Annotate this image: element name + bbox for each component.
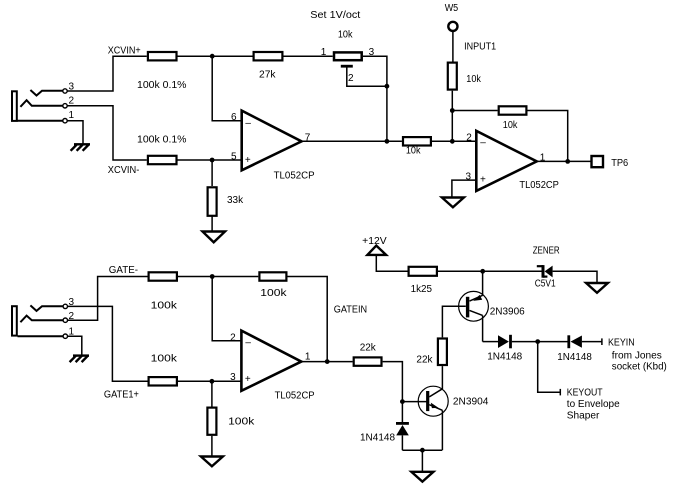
svg-text:10k: 10k bbox=[503, 120, 519, 131]
wire op-amp3 output bbox=[301, 361, 352, 363]
svg-text:TL052CP: TL052CP bbox=[275, 391, 315, 402]
wire op-amp2 output to TP6 bbox=[537, 160, 592, 162]
svg-text:INPUT1: INPUT1 bbox=[464, 42, 496, 53]
wire op-amp2 pin 3 to ground bbox=[452, 180, 476, 197]
svg-text:–: – bbox=[245, 118, 251, 129]
svg-text:2: 2 bbox=[230, 332, 236, 343]
connector W5 bbox=[445, 3, 459, 31]
chassis ground (bottom jack) bbox=[70, 356, 89, 363]
wire Q1 collector down to KEYIN line bbox=[482, 315, 484, 341]
zener diode C5V1 bbox=[533, 246, 560, 290]
svg-text:W5: W5 bbox=[445, 3, 459, 14]
transistor Q1 2N3906 bbox=[459, 271, 526, 321]
jack J2 body bbox=[12, 306, 17, 335]
wire to op-amp2 pin 2 bbox=[432, 140, 476, 142]
wire D1 to D2 bbox=[512, 341, 569, 343]
wire to op-amp pin 5 bbox=[178, 159, 242, 161]
svg-text:100k 0.1%: 100k 0.1% bbox=[137, 134, 187, 145]
transistor Q2 2N3904 bbox=[418, 386, 489, 450]
ground (op-amp2 pin3) bbox=[442, 198, 464, 208]
wire Q2 base node bbox=[402, 401, 426, 403]
wire 1k25 to zener bbox=[438, 270, 542, 272]
wire op-amp1 output bbox=[302, 140, 402, 142]
wire jack pin2 down to XCVIN- bbox=[67, 106, 147, 160]
svg-text:100k 0.1%: 100k 0.1% bbox=[137, 80, 187, 91]
svg-text:XCVIN+: XCVIN+ bbox=[108, 46, 141, 57]
label KEYOUT bbox=[567, 388, 620, 422]
wire 22k to Q2 collector bbox=[441, 366, 443, 389]
svg-text:27k: 27k bbox=[259, 70, 277, 81]
wire node P down to 100k bbox=[211, 381, 213, 406]
node A junction dot bbox=[210, 54, 215, 59]
svg-text:Shaper: Shaper bbox=[567, 411, 600, 422]
wire node K down to KEYOUT bbox=[538, 342, 561, 396]
svg-text:6: 6 bbox=[231, 112, 237, 123]
wire W5 to 10k bbox=[452, 31, 454, 62]
ground (below 100k) bbox=[201, 457, 223, 467]
svg-text:KEYOUT: KEYOUT bbox=[567, 388, 603, 399]
svg-text:22k: 22k bbox=[416, 354, 433, 365]
node C junction dot bbox=[210, 158, 215, 163]
svg-text:GATE1+: GATE1+ bbox=[104, 389, 139, 400]
wire node M to ground bbox=[421, 450, 423, 472]
jack J2 pin 2 contact bbox=[20, 311, 74, 323]
svg-text:XCVIN-: XCVIN- bbox=[108, 165, 140, 176]
svg-text:3: 3 bbox=[466, 172, 472, 183]
wire to feedback resistor bbox=[178, 276, 258, 278]
wire 10k down to pin 2 node bbox=[451, 91, 453, 142]
svg-text:2: 2 bbox=[348, 73, 354, 84]
wire jack pin1 to chassis ground bbox=[67, 121, 83, 144]
wire feedback down to output bbox=[288, 277, 328, 362]
wire pot pin3 down bbox=[363, 56, 387, 141]
wire feedback to output bbox=[528, 111, 568, 162]
jack J1 pin 2 contact bbox=[20, 96, 74, 109]
jack J2 pin 1 contact bbox=[18, 326, 75, 338]
svg-text:KEYIN: KEYIN bbox=[608, 337, 635, 348]
wire node N down to op-amp pin 2 bbox=[212, 277, 241, 341]
jack J2 pin 3 contact bbox=[30, 297, 74, 311]
wire node A down to op-amp pin 6 bbox=[212, 56, 242, 121]
wire jack J2 pin3 down to GATE1+ bbox=[68, 306, 148, 381]
resistor 10k (feedback) bbox=[499, 106, 527, 131]
svg-text:1N4148: 1N4148 bbox=[360, 433, 395, 444]
svg-text:1: 1 bbox=[321, 47, 327, 58]
chassis ground (top jack) bbox=[71, 144, 90, 151]
svg-text:100k: 100k bbox=[228, 417, 255, 428]
wire zener to ground bbox=[553, 271, 597, 283]
jack J1 pin 3 contact bbox=[30, 82, 74, 96]
wire +12V to 1k25 bbox=[376, 255, 407, 271]
wire 27k to pot pin1 bbox=[284, 55, 333, 57]
svg-text:100k: 100k bbox=[151, 301, 178, 312]
node P junction dot bbox=[210, 379, 215, 384]
svg-text:2: 2 bbox=[466, 132, 472, 143]
node H junction dot bbox=[480, 269, 485, 274]
ground (below 33k) bbox=[203, 232, 226, 243]
svg-text:1: 1 bbox=[69, 110, 75, 121]
wire emitter rail bbox=[402, 449, 442, 451]
resistor 100k (GATE1+) bbox=[104, 353, 178, 400]
node N junction dot bbox=[210, 274, 215, 279]
node B junction dot bbox=[385, 84, 390, 89]
svg-text:C5V1: C5V1 bbox=[535, 279, 556, 290]
svg-text:100k: 100k bbox=[260, 288, 287, 299]
node E junction dot bbox=[450, 108, 455, 113]
wire D2 to KEYIN terminal bbox=[582, 338, 602, 345]
wire to op-amp pin 3 bbox=[178, 380, 241, 382]
wire 22k to Q2 base node bbox=[383, 362, 403, 402]
svg-text:10k: 10k bbox=[338, 29, 354, 40]
svg-text:TL052CP: TL052CP bbox=[519, 180, 559, 191]
svg-text:+12V: +12V bbox=[362, 236, 387, 247]
resistor 10k (INPUT1) bbox=[448, 63, 482, 90]
resistor 10k (between op-amps) bbox=[403, 137, 431, 156]
svg-text:Set 1V/oct: Set 1V/oct bbox=[310, 10, 360, 21]
node Q junction dot bbox=[325, 359, 330, 364]
diode D1 1N4148 bbox=[487, 335, 522, 363]
jack J1 pin 1 contact bbox=[18, 110, 75, 123]
diode D2 1N4148 bbox=[557, 335, 592, 363]
svg-text:+: + bbox=[245, 374, 251, 385]
svg-text:+: + bbox=[480, 174, 486, 185]
resistor 100k (to ground) bbox=[207, 408, 255, 435]
resistor 100k (GATE-) bbox=[149, 272, 179, 311]
svg-text:GATE-: GATE- bbox=[109, 265, 138, 276]
svg-text:–: – bbox=[480, 138, 486, 149]
test point TP6 bbox=[592, 156, 629, 169]
wire Q1 base left and down bbox=[442, 306, 465, 337]
diode D3 1N4148 (vertical) bbox=[360, 402, 409, 451]
svg-text:10k: 10k bbox=[466, 74, 482, 85]
svg-text:3: 3 bbox=[230, 372, 236, 383]
op-amp U1A TL052CP bbox=[231, 111, 315, 182]
svg-text:TP6: TP6 bbox=[611, 158, 628, 169]
svg-text:–: – bbox=[245, 338, 251, 349]
svg-text:10k: 10k bbox=[406, 146, 422, 157]
node G junction dot bbox=[565, 159, 570, 164]
wire node E to feedback 10k bbox=[452, 110, 497, 112]
wire 100k to ground bbox=[211, 436, 213, 457]
resistor 22k (vertical) bbox=[416, 339, 447, 366]
resistor 100k 0.1% (XCVIN+) bbox=[137, 52, 187, 91]
svg-text:socket (Kbd): socket (Kbd) bbox=[612, 361, 667, 372]
wire jack J2 pin2 up to GATE- bbox=[68, 277, 148, 321]
wire pot wiper to node B bbox=[347, 66, 387, 86]
op-amp U1B TL052CP bbox=[466, 131, 560, 191]
svg-text:1N4148: 1N4148 bbox=[487, 352, 522, 363]
power +12V bbox=[362, 236, 387, 255]
svg-text:to Envelope: to Envelope bbox=[567, 399, 620, 410]
wire jack pin3 up to XCVIN+ bbox=[67, 56, 147, 91]
wire 33k to ground bbox=[211, 215, 213, 231]
wire KEYIN line left segment bbox=[483, 341, 498, 343]
potentiometer 10k bbox=[321, 29, 375, 84]
svg-text:+: + bbox=[245, 155, 251, 166]
resistor 22k (horizontal) bbox=[354, 343, 382, 366]
resistor 33k bbox=[208, 187, 245, 216]
svg-text:ZENER: ZENER bbox=[533, 246, 560, 257]
svg-text:2N3904: 2N3904 bbox=[453, 396, 489, 407]
ground (Q2 emitter) bbox=[411, 472, 433, 482]
resistor 100k 0.1% (XCVIN-) bbox=[108, 134, 187, 176]
node K junction dot bbox=[535, 339, 540, 344]
svg-text:GATEIN: GATEIN bbox=[334, 305, 367, 316]
node F junction dot bbox=[450, 139, 455, 144]
resistor 100k (feedback) bbox=[259, 272, 287, 299]
svg-text:33k: 33k bbox=[227, 195, 244, 206]
node M junction dot bbox=[420, 448, 425, 453]
svg-text:TL052CP: TL052CP bbox=[274, 170, 315, 181]
node D junction dot bbox=[385, 139, 390, 144]
svg-text:2N3906: 2N3906 bbox=[490, 306, 525, 317]
resistor 1k25 bbox=[409, 267, 437, 295]
svg-text:1k25: 1k25 bbox=[411, 284, 433, 295]
wire node C to 33k bbox=[211, 160, 213, 186]
wire jack J2 pin1 to chassis ground bbox=[68, 336, 82, 355]
ground (zener) bbox=[586, 283, 608, 293]
resistor 27k bbox=[254, 52, 283, 81]
svg-text:2: 2 bbox=[69, 96, 75, 107]
svg-text:100k: 100k bbox=[151, 353, 178, 364]
svg-text:from Jones: from Jones bbox=[612, 351, 662, 362]
label KEYIN bbox=[608, 337, 667, 372]
svg-text:1N4148: 1N4148 bbox=[557, 352, 592, 363]
svg-text:5: 5 bbox=[231, 152, 237, 163]
op-amp U2A TL052CP bbox=[230, 331, 315, 402]
svg-text:22k: 22k bbox=[360, 343, 377, 354]
node L junction dot bbox=[400, 399, 405, 404]
jack J1 body bbox=[12, 91, 17, 121]
wire resistor to node A bbox=[178, 55, 253, 57]
